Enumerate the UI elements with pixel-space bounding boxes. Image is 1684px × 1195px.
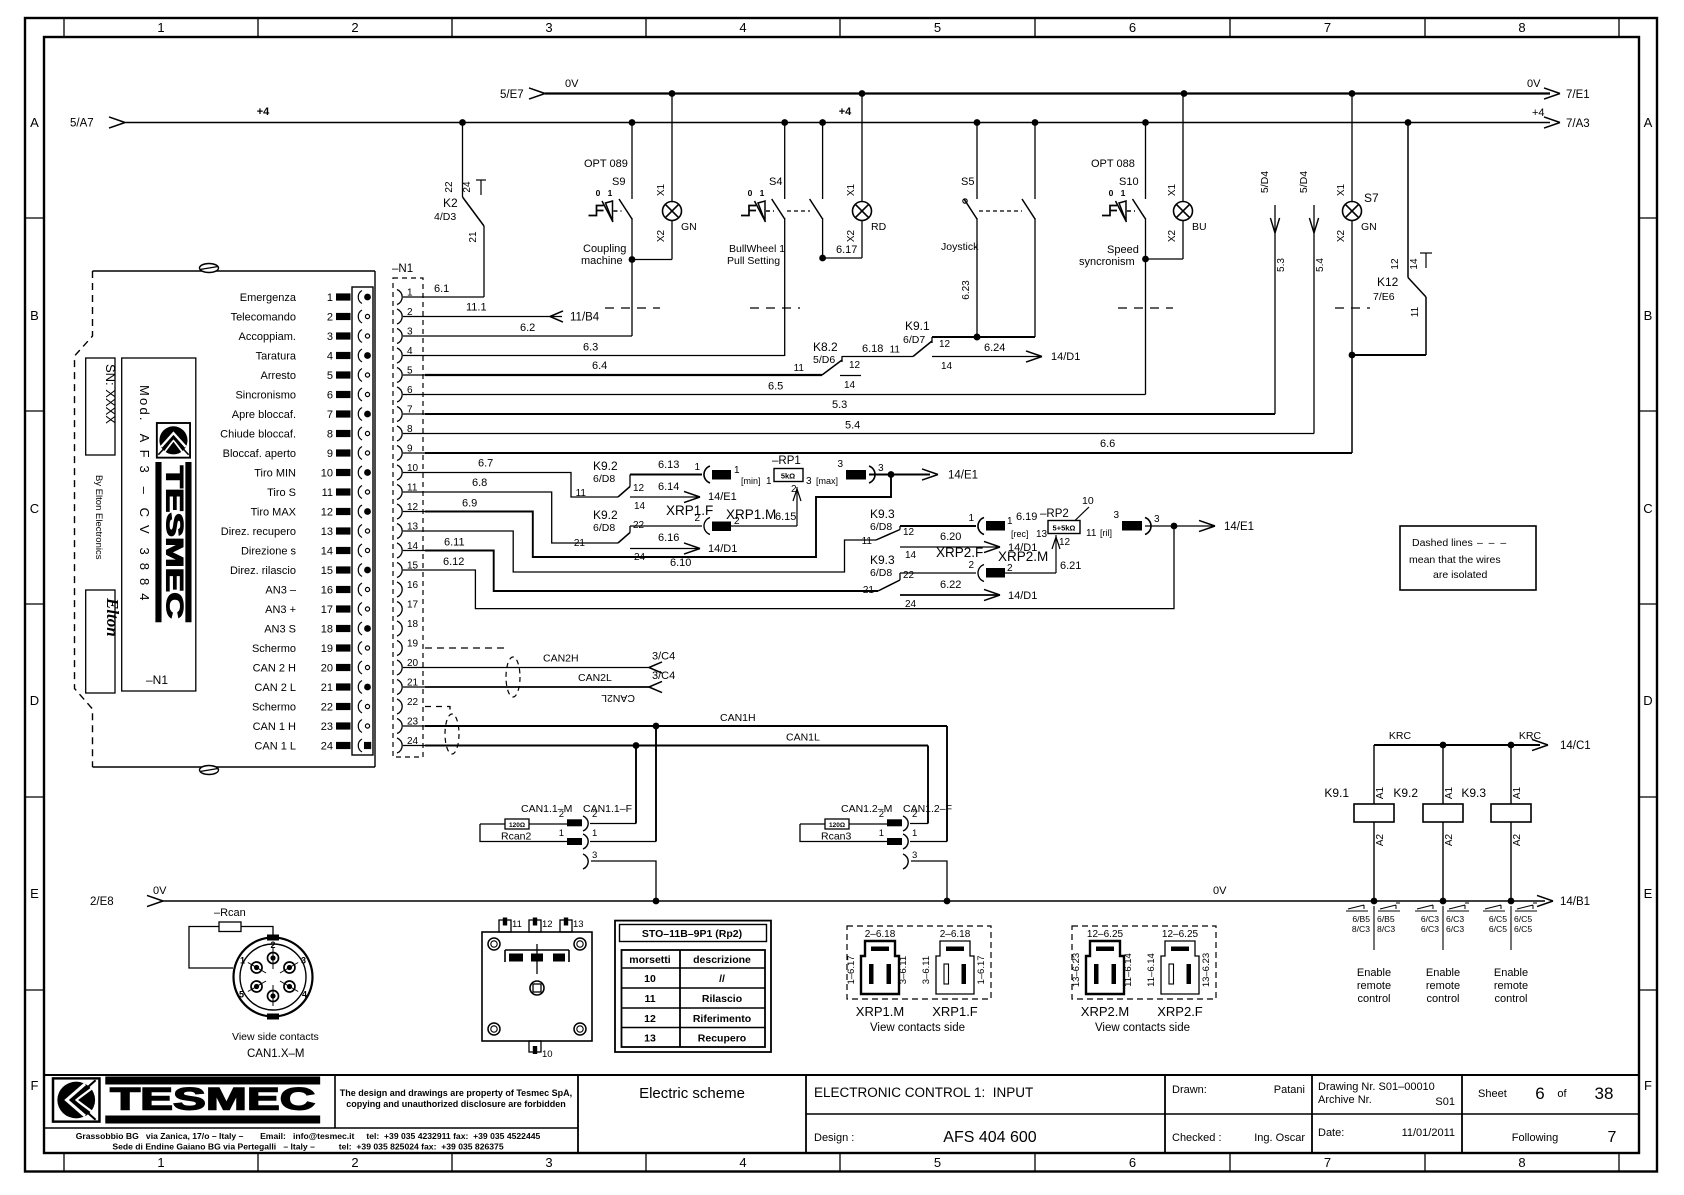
svg-text:12: 12	[644, 1013, 656, 1025]
svg-text:6: 6	[327, 390, 333, 402]
svg-text:Recupero: Recupero	[698, 1032, 746, 1044]
svg-text:1: 1	[1007, 516, 1013, 527]
svg-text:14/D1: 14/D1	[1008, 590, 1037, 602]
svg-text:Drawn:: Drawn:	[1172, 1084, 1207, 1096]
svg-text:8: 8	[1518, 20, 1525, 35]
svg-text:K8.2: K8.2	[813, 340, 838, 354]
svg-text:Dashed lines: Dashed lines	[1412, 537, 1473, 549]
svg-text:A: A	[1644, 115, 1653, 130]
svg-text:22: 22	[321, 702, 333, 714]
svg-text:1: 1	[157, 20, 164, 35]
svg-text:14: 14	[321, 546, 333, 558]
svg-text:X1: X1	[656, 183, 667, 196]
svg-text:6.8: 6.8	[472, 477, 487, 489]
svg-text:6.4: 6.4	[592, 360, 607, 372]
svg-text:21: 21	[321, 682, 333, 694]
svg-text:4: 4	[739, 1155, 746, 1170]
svg-text:3–6.11: 3–6.11	[898, 956, 909, 984]
svg-text:CAN1.2–F: CAN1.2–F	[903, 803, 952, 815]
svg-text:F: F	[1644, 1078, 1652, 1093]
svg-text:5.3: 5.3	[1276, 258, 1287, 272]
svg-text:6.14: 6.14	[658, 481, 679, 493]
svg-text:10: 10	[644, 973, 656, 985]
svg-text:5kΩ: 5kΩ	[781, 472, 795, 481]
svg-text:14/D1: 14/D1	[1051, 351, 1080, 363]
svg-text:View contacts side: View contacts side	[870, 1022, 965, 1034]
svg-text:Date:: Date:	[1318, 1127, 1344, 1139]
svg-text:0V: 0V	[565, 78, 579, 90]
svg-text:12–6.25: 12–6.25	[1087, 929, 1124, 940]
svg-text:Rcan2: Rcan2	[501, 831, 532, 843]
svg-text:1: 1	[760, 188, 765, 198]
svg-text:A2: A2	[1375, 833, 1386, 846]
svg-text:13: 13	[1036, 529, 1048, 540]
svg-text:3/C4: 3/C4	[652, 651, 675, 663]
svg-text:Following: Following	[1512, 1132, 1558, 1144]
svg-text:6.19: 6.19	[1016, 511, 1037, 523]
svg-text:1: 1	[240, 956, 245, 966]
svg-text:0: 0	[1109, 188, 1114, 198]
svg-text:– – –: – – –	[1477, 537, 1506, 549]
svg-text:7: 7	[327, 409, 333, 421]
svg-text:K9.1: K9.1	[1324, 786, 1349, 800]
svg-text:Electric scheme: Electric scheme	[639, 1085, 745, 1102]
svg-text:13–6.23: 13–6.23	[1071, 953, 1082, 987]
svg-text:5.3: 5.3	[832, 399, 847, 411]
svg-text:120Ω: 120Ω	[509, 822, 525, 829]
svg-text:CAN1.1–F: CAN1.1–F	[583, 803, 632, 815]
svg-text:2: 2	[734, 516, 740, 527]
svg-text:Sheet: Sheet	[1478, 1088, 1507, 1100]
svg-text:21: 21	[574, 538, 586, 549]
svg-text:12: 12	[1390, 258, 1401, 270]
svg-text:AN3 S: AN3 S	[264, 624, 296, 636]
svg-text:CAN1H: CAN1H	[720, 712, 756, 724]
svg-text:8: 8	[1518, 1155, 1525, 1170]
svg-text:14: 14	[905, 550, 917, 561]
svg-text:12: 12	[939, 339, 951, 350]
svg-text:Tiro MAX: Tiro MAX	[251, 507, 297, 519]
svg-text:2–6.18: 2–6.18	[865, 929, 896, 940]
svg-text:17: 17	[407, 600, 419, 611]
svg-text:16: 16	[321, 585, 333, 597]
svg-text:2: 2	[351, 1155, 358, 1170]
svg-text:5/D4: 5/D4	[1259, 171, 1271, 193]
svg-text:CAN1L: CAN1L	[786, 732, 820, 744]
svg-text:6/D8: 6/D8	[593, 522, 615, 534]
svg-text:K9.1: K9.1	[905, 319, 930, 333]
svg-text:A: A	[30, 115, 39, 130]
svg-text:CAN 1 H: CAN 1 H	[253, 721, 296, 733]
svg-text:4: 4	[302, 990, 307, 1000]
svg-text:View contacts side: View contacts side	[1095, 1022, 1190, 1034]
svg-text:D: D	[30, 693, 39, 708]
svg-text:11: 11	[644, 993, 655, 1005]
svg-text:6/C5: 6/C5	[1489, 914, 1507, 924]
svg-text:0: 0	[748, 188, 753, 198]
svg-text:11–6.14: 11–6.14	[1123, 953, 1134, 987]
svg-text:Accoppiam.: Accoppiam.	[239, 331, 296, 343]
svg-text:XRP1.M: XRP1.M	[856, 1004, 904, 1019]
svg-text:Archive Nr.: Archive Nr.	[1318, 1094, 1372, 1106]
svg-text:20: 20	[321, 663, 333, 675]
svg-text:22: 22	[444, 181, 455, 193]
svg-text:B: B	[1644, 308, 1653, 323]
svg-text:11: 11	[322, 487, 333, 499]
svg-text:K2: K2	[443, 196, 458, 210]
svg-text:5+5kΩ: 5+5kΩ	[1053, 524, 1076, 533]
svg-text:2: 2	[351, 20, 358, 35]
svg-text:12: 12	[633, 483, 645, 494]
svg-text:machine: machine	[581, 255, 623, 267]
svg-text:A2: A2	[1444, 833, 1455, 846]
svg-text:7: 7	[1608, 1129, 1617, 1146]
svg-text:6/D8: 6/D8	[870, 521, 892, 533]
svg-text:morsetti: morsetti	[629, 954, 671, 966]
svg-text:14/C1: 14/C1	[1560, 740, 1591, 752]
svg-text:K9.2: K9.2	[593, 508, 618, 522]
svg-text:6.12: 6.12	[443, 556, 464, 568]
svg-text:–Rcan: –Rcan	[214, 907, 246, 919]
svg-text:5: 5	[934, 1155, 941, 1170]
svg-text:1: 1	[968, 513, 974, 524]
svg-text:6/D8: 6/D8	[870, 567, 892, 579]
svg-text:+4: +4	[257, 106, 270, 118]
svg-text:Direz. rilascio: Direz. rilascio	[230, 565, 296, 577]
svg-text:X2: X2	[846, 229, 857, 242]
svg-text:XRP1.F: XRP1.F	[932, 1004, 978, 1019]
svg-text:[min]: [min]	[741, 476, 761, 486]
svg-text:0V: 0V	[153, 885, 167, 897]
svg-text:19: 19	[407, 639, 419, 650]
svg-text:5.4: 5.4	[845, 420, 860, 432]
svg-text:2–6.18: 2–6.18	[940, 929, 971, 940]
svg-text:S5: S5	[961, 176, 974, 188]
svg-text:XRP2.M: XRP2.M	[998, 549, 1048, 564]
svg-text:9: 9	[327, 448, 333, 460]
svg-text:BU: BU	[1192, 221, 1207, 233]
svg-text:XRP2.F: XRP2.F	[1157, 1004, 1203, 1019]
svg-text:CAN2H: CAN2H	[543, 653, 579, 665]
svg-text:6.11: 6.11	[444, 537, 465, 549]
svg-text:KRC: KRC	[1389, 730, 1412, 742]
svg-text:GN: GN	[681, 221, 697, 233]
svg-text:syncronism: syncronism	[1079, 256, 1135, 268]
svg-text:19: 19	[321, 643, 333, 655]
svg-text:remote: remote	[1494, 980, 1528, 992]
svg-text:OPT 088: OPT 088	[1091, 158, 1135, 170]
svg-text:5.4: 5.4	[1315, 258, 1326, 272]
svg-text:AFS 404 600: AFS 404 600	[943, 1129, 1037, 1146]
svg-text:2: 2	[968, 560, 974, 571]
svg-text:Bloccaf. aperto: Bloccaf. aperto	[223, 448, 296, 460]
svg-text:6.1: 6.1	[434, 283, 449, 295]
svg-text:11–6.14: 11–6.14	[1146, 953, 1157, 987]
svg-text:KRC: KRC	[1519, 730, 1542, 742]
svg-text:1–6.17: 1–6.17	[976, 955, 987, 984]
svg-text:By Elton Electronics: By Elton Electronics	[93, 475, 104, 560]
svg-text:Emergenza: Emergenza	[240, 292, 297, 304]
svg-text:16: 16	[407, 580, 419, 591]
svg-text:1: 1	[1121, 188, 1126, 198]
svg-text:descrizione: descrizione	[693, 954, 751, 966]
svg-text:1: 1	[327, 292, 333, 304]
svg-text:S7: S7	[1364, 191, 1379, 205]
svg-text:6.9: 6.9	[462, 498, 477, 510]
svg-text:14/B1: 14/B1	[1560, 896, 1590, 908]
svg-text:3: 3	[912, 850, 917, 861]
svg-text:A1: A1	[1512, 786, 1523, 799]
svg-text:38: 38	[1595, 1084, 1614, 1103]
svg-text:copying and unauthorized discl: copying and unauthorized disclosure are …	[346, 1099, 566, 1109]
svg-text:22: 22	[407, 697, 419, 708]
svg-text:Pull Setting: Pull Setting	[727, 255, 780, 267]
svg-text:11: 11	[890, 345, 901, 356]
svg-text:5: 5	[934, 20, 941, 35]
svg-text:18: 18	[321, 624, 333, 636]
svg-text:Direzione s: Direzione s	[241, 546, 297, 558]
svg-text:C: C	[30, 501, 39, 516]
svg-text:A1: A1	[1444, 786, 1455, 799]
svg-text:Chiude bloccaf.: Chiude bloccaf.	[220, 429, 296, 441]
svg-text:6/B5: 6/B5	[1352, 914, 1370, 924]
svg-text:10: 10	[542, 1049, 553, 1060]
svg-text:1: 1	[608, 188, 613, 198]
svg-text:Arresto: Arresto	[261, 370, 296, 382]
svg-text:1: 1	[734, 465, 740, 476]
svg-text:control: control	[1494, 993, 1527, 1005]
svg-text:XRP2.F: XRP2.F	[936, 545, 983, 560]
svg-text:Checked :: Checked :	[1172, 1132, 1222, 1144]
svg-text:3/C4: 3/C4	[652, 670, 675, 682]
svg-text:1: 1	[694, 462, 700, 473]
svg-text:AN3 +: AN3 +	[265, 604, 296, 616]
svg-text:1: 1	[559, 828, 564, 839]
svg-text:Design :: Design :	[814, 1132, 854, 1144]
svg-text:control: control	[1426, 993, 1459, 1005]
svg-text:6.16: 6.16	[658, 532, 679, 544]
svg-text:SN: XXXX: SN: XXXX	[103, 364, 118, 424]
svg-text://: //	[719, 973, 725, 985]
svg-text:Patani: Patani	[1274, 1084, 1305, 1096]
svg-text:14/E1: 14/E1	[708, 491, 737, 503]
svg-text:6/C5: 6/C5	[1514, 924, 1532, 934]
svg-text:5/E7: 5/E7	[500, 89, 524, 101]
svg-text:D: D	[1643, 693, 1652, 708]
svg-text:CAN1.2–M: CAN1.2–M	[841, 803, 892, 815]
svg-text:remote: remote	[1426, 980, 1460, 992]
svg-text:CAN 1 L: CAN 1 L	[254, 741, 296, 753]
svg-text:3: 3	[1154, 514, 1160, 525]
svg-text:E: E	[1644, 886, 1653, 901]
svg-text:[max]: [max]	[816, 476, 838, 486]
svg-text:6/B5: 6/B5	[1377, 914, 1395, 924]
svg-text:–RP2: –RP2	[1040, 508, 1069, 520]
svg-text:21: 21	[468, 231, 479, 243]
svg-text:21: 21	[863, 585, 875, 596]
svg-text:15: 15	[321, 565, 333, 577]
svg-text:F: F	[31, 1078, 39, 1093]
svg-text:Schermo: Schermo	[252, 702, 296, 714]
svg-text:22: 22	[903, 570, 915, 581]
svg-text:–N1: –N1	[146, 673, 168, 687]
svg-text:14: 14	[844, 380, 856, 391]
svg-text:6.23: 6.23	[961, 280, 972, 300]
svg-text:7/E6: 7/E6	[1373, 291, 1395, 303]
svg-text:11: 11	[862, 536, 873, 547]
svg-text:Telecomando: Telecomando	[231, 312, 296, 324]
svg-text:6: 6	[1129, 1155, 1136, 1170]
svg-text:0V: 0V	[1527, 78, 1541, 90]
svg-text:X1: X1	[1336, 183, 1347, 196]
svg-text:AN3 –: AN3 –	[265, 585, 296, 597]
svg-text:3: 3	[301, 956, 306, 966]
svg-text:X2: X2	[656, 229, 667, 242]
svg-text:Riferimento: Riferimento	[693, 1013, 751, 1025]
svg-text:K9.2: K9.2	[1393, 786, 1418, 800]
svg-text:Taratura: Taratura	[256, 351, 297, 363]
svg-text:6/C5: 6/C5	[1489, 924, 1507, 934]
svg-text:K9.2: K9.2	[593, 459, 618, 473]
svg-text:CAN1.1–M: CAN1.1–M	[521, 803, 572, 815]
svg-text:B: B	[30, 308, 39, 323]
svg-text:1: 1	[766, 476, 772, 487]
svg-text:3: 3	[1113, 510, 1119, 521]
svg-text:11: 11	[576, 488, 587, 499]
svg-text:Coupling: Coupling	[583, 243, 626, 255]
svg-text:7/A3: 7/A3	[1566, 118, 1590, 130]
svg-text:2: 2	[694, 513, 700, 524]
svg-text:24: 24	[321, 741, 333, 753]
svg-text:120Ω: 120Ω	[829, 822, 845, 829]
svg-text:Enable: Enable	[1357, 967, 1391, 979]
svg-text:Mod. A F 3 – C V 3 8 8 4: Mod. A F 3 – C V 3 8 8 4	[137, 385, 152, 603]
svg-text:13: 13	[321, 526, 333, 538]
svg-text:CAN2L: CAN2L	[601, 692, 635, 704]
svg-text:6.20: 6.20	[940, 531, 961, 543]
svg-text:3: 3	[592, 850, 597, 861]
svg-text:12: 12	[1059, 537, 1071, 548]
svg-text:12: 12	[849, 360, 861, 371]
svg-text:6: 6	[1535, 1084, 1544, 1103]
svg-text:6/C5: 6/C5	[1514, 914, 1532, 924]
svg-text:17: 17	[321, 604, 333, 616]
svg-text:14: 14	[941, 361, 953, 372]
svg-text:[rec]: [rec]	[1011, 529, 1029, 539]
svg-text:Apre bloccaf.: Apre bloccaf.	[232, 409, 296, 421]
svg-text:6.5: 6.5	[768, 381, 783, 393]
svg-text:5/D4: 5/D4	[1298, 171, 1310, 193]
svg-text:CAN1.X–M: CAN1.X–M	[247, 1048, 305, 1060]
svg-text:6.10: 6.10	[670, 557, 691, 569]
svg-text:18: 18	[407, 619, 419, 630]
svg-text:mean that the wires: mean that the wires	[1409, 554, 1501, 566]
svg-text:Rcan3: Rcan3	[821, 831, 852, 843]
svg-text:14/E1: 14/E1	[948, 470, 978, 482]
svg-text:X1: X1	[846, 183, 857, 196]
svg-text:XRP1.F: XRP1.F	[666, 503, 713, 518]
svg-text:6/D7: 6/D7	[903, 334, 925, 346]
svg-text:6/C3: 6/C3	[1421, 914, 1439, 924]
svg-text:11.1: 11.1	[466, 302, 487, 314]
svg-text:7/E1: 7/E1	[1566, 89, 1590, 101]
svg-text:Ing. Oscar: Ing. Oscar	[1254, 1132, 1305, 1144]
svg-text:Tiro MIN: Tiro MIN	[254, 468, 296, 480]
svg-text:14: 14	[634, 501, 646, 512]
svg-text:3: 3	[806, 476, 812, 487]
svg-text:11: 11	[512, 919, 522, 930]
svg-text:Schermo: Schermo	[252, 643, 296, 655]
svg-text:+4: +4	[839, 106, 852, 118]
svg-text:C: C	[1643, 501, 1652, 516]
svg-text:XRP2.M: XRP2.M	[1081, 1004, 1129, 1019]
svg-text:14: 14	[1409, 258, 1420, 270]
svg-text:Sede di Endine Gaiano BG via P: Sede di Endine Gaiano BG via Pertegalli …	[112, 1142, 503, 1152]
svg-text:–RP1: –RP1	[772, 455, 801, 467]
svg-text:X1: X1	[1167, 183, 1178, 196]
svg-text:K9.3: K9.3	[1461, 786, 1486, 800]
svg-text:6.21: 6.21	[1060, 560, 1081, 572]
svg-text:+4: +4	[1532, 107, 1545, 119]
svg-text:of: of	[1557, 1088, 1567, 1100]
svg-text:remote: remote	[1357, 980, 1391, 992]
svg-text:K9.3: K9.3	[870, 553, 895, 567]
svg-text:2: 2	[1007, 563, 1013, 574]
svg-text:S9: S9	[612, 176, 625, 188]
svg-text:S01: S01	[1435, 1096, 1455, 1108]
svg-text:8: 8	[327, 429, 333, 441]
svg-text:13–6.23: 13–6.23	[1201, 953, 1212, 987]
svg-text:6.15: 6.15	[775, 511, 796, 523]
svg-text:CAN2L: CAN2L	[578, 672, 612, 684]
svg-text:X2: X2	[1167, 229, 1178, 242]
svg-text:The design and drawings are pr: The design and drawings are property of …	[340, 1088, 572, 1098]
svg-text:12–6.25: 12–6.25	[1162, 929, 1199, 940]
svg-text:6.18: 6.18	[862, 343, 883, 355]
svg-text:12: 12	[542, 919, 553, 930]
svg-text:6/C3: 6/C3	[1421, 924, 1439, 934]
svg-text:23: 23	[321, 721, 333, 733]
svg-text:5/A7: 5/A7	[70, 118, 94, 130]
svg-text:A1: A1	[1375, 786, 1386, 799]
svg-text:ELECTRONIC CONTROL 1: INPUT: ELECTRONIC CONTROL 1: INPUT	[814, 1085, 1033, 1100]
svg-text:8/C3: 8/C3	[1377, 924, 1395, 934]
svg-text:3–6.11: 3–6.11	[921, 956, 932, 984]
svg-text:[ril]: [ril]	[1100, 528, 1112, 538]
svg-text:X2: X2	[1336, 229, 1347, 242]
svg-text:3: 3	[545, 20, 552, 35]
svg-text:control: control	[1357, 993, 1390, 1005]
svg-text:4/D3: 4/D3	[434, 211, 456, 223]
svg-text:S4: S4	[769, 176, 782, 188]
svg-text:7: 7	[1324, 1155, 1331, 1170]
svg-text:1: 1	[592, 828, 597, 839]
svg-text:STO–11B–9P1 (Rp2): STO–11B–9P1 (Rp2)	[642, 928, 742, 940]
svg-text:6.24: 6.24	[984, 342, 1005, 354]
svg-text:6.3: 6.3	[583, 342, 598, 354]
svg-text:3: 3	[545, 1155, 552, 1170]
svg-text:2: 2	[327, 312, 333, 324]
svg-text:8/C3: 8/C3	[1352, 924, 1370, 934]
svg-text:11/01/2011: 11/01/2011	[1402, 1127, 1455, 1139]
svg-text:14/E1: 14/E1	[1224, 521, 1254, 533]
svg-text:CAN 2 H: CAN 2 H	[253, 663, 296, 675]
svg-text:12: 12	[321, 507, 333, 519]
svg-text:10: 10	[321, 468, 333, 480]
svg-text:E: E	[30, 886, 39, 901]
svg-text:Speed: Speed	[1107, 244, 1139, 256]
svg-text:6/D8: 6/D8	[593, 473, 615, 485]
